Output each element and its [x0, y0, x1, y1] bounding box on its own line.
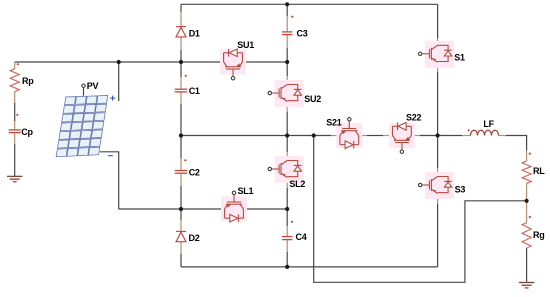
- PV sense terminal: [83, 87, 85, 96]
- wire node B down: [286, 62, 288, 76]
- wire RL top stub: [526, 150, 528, 161]
- wire midpoint to LF: [438, 135, 462, 137]
- junction node row SL / C2-D2: [179, 207, 183, 211]
- wire input row left (Rp top to node A): [15, 61, 181, 63]
- wire C4 to bottom rail: [286, 252, 288, 267]
- resistor RL: [522, 161, 531, 184]
- wire S3 collector stub: [437, 168, 439, 177]
- svg-text:LF: LF: [483, 119, 494, 129]
- wire Cp top stub: [14, 121, 16, 130]
- svg-text:SU1: SU1: [237, 40, 254, 50]
- transistor SU2 (IGBT with antiparallel diode): [268, 80, 304, 107]
- wire S1 emitter stub: [437, 62, 439, 72]
- transistor S3 (IGBT with antiparallel diode): [419, 172, 455, 199]
- ground (right, Rg): [519, 283, 534, 288]
- wire SL2 emitter stub: [286, 178, 288, 189]
- marker dot Cp: [16, 114, 18, 116]
- solar panel PV: [56, 96, 108, 157]
- svg-text:D1: D1: [189, 29, 200, 39]
- wire S22 right stub: [411, 135, 420, 137]
- wire mid row: S21 to S22: [367, 135, 383, 137]
- wire C1 to node C (mid row): [180, 104, 182, 136]
- diode D2: [176, 231, 186, 241]
- svg-text:Rg: Rg: [533, 230, 545, 240]
- wire Rp bottom stub: [14, 92, 16, 103]
- resistor Rg: [522, 223, 531, 248]
- wire SU2 emitter stub: [286, 102, 288, 113]
- PV plus terminal marker: [110, 96, 115, 101]
- marker dot RL: [529, 153, 531, 155]
- wire Rp top stub: [14, 62, 16, 69]
- junction node B (SU1/C3/SU2): [285, 60, 289, 64]
- wire C1 top stub: [180, 77, 182, 89]
- transistor SU1 (IGBT with antiparallel diode): [220, 49, 246, 80]
- wire midpoint to S3: [437, 136, 439, 169]
- junction node mid row / SU2-SL2: [285, 133, 289, 137]
- svg-text:SL1: SL1: [238, 186, 254, 196]
- svg-text:S3: S3: [455, 184, 466, 194]
- junction node mid row / load return: [312, 133, 316, 137]
- wire D2 anode stub: [180, 242, 182, 254]
- wire row SL down to C4: [286, 209, 288, 226]
- junction node A (D1/C1/SU1): [179, 60, 183, 64]
- wire S1 to midpoint: [437, 72, 439, 136]
- wire LF left stub: [462, 135, 471, 137]
- wire Rg top stub: [526, 201, 528, 223]
- svg-text:S1: S1: [454, 52, 465, 62]
- svg-text:C2: C2: [189, 168, 200, 178]
- wire S1 drain rail: [437, 4, 439, 38]
- wire C4 bottom stub: [286, 240, 288, 252]
- wire row SL left (PV neg / node to SL1): [119, 208, 225, 210]
- svg-text:Cp: Cp: [21, 127, 33, 137]
- wire C3 bottom stub: [286, 35, 288, 48]
- wire D1 to node A: [180, 50, 182, 62]
- wire PV negative terminal down to row SL: [100, 152, 119, 209]
- capacitor C3: [282, 32, 292, 35]
- wire S22 left stub: [383, 135, 393, 137]
- wire D1 anode stub: [180, 37, 182, 50]
- junction node RL-Rg output: [525, 199, 529, 203]
- transistor S21 (IGBT with antiparallel diode): [336, 118, 362, 149]
- wire SL1 right to node: [244, 208, 288, 210]
- capacitor C2: [175, 171, 188, 174]
- svg-text:RL: RL: [533, 166, 545, 176]
- svg-text:C3: C3: [297, 28, 308, 38]
- wire SU1 right to node B: [243, 61, 288, 63]
- wire xA rail top to D1: [180, 4, 182, 12]
- transistor SL1 (IGBT with antiparallel diode): [221, 191, 247, 222]
- wire C3 to node B: [286, 48, 288, 62]
- wire RL bottom stub: [526, 183, 528, 200]
- svg-text:S22: S22: [406, 113, 422, 123]
- diode D1: [176, 27, 186, 37]
- svg-text:D2: D2: [189, 233, 200, 243]
- resistor Rp: [10, 69, 19, 92]
- transistor S22 (IGBT with antiparallel diode): [389, 123, 415, 154]
- wire D1 cathode stub: [180, 12, 182, 27]
- wire D2 cathode stub: [180, 220, 182, 231]
- svg-text:C4: C4: [296, 232, 307, 242]
- junction node top rail / C3: [285, 2, 289, 6]
- wire mid row node down: [180, 136, 182, 159]
- wire mid row: node to S21: [181, 135, 331, 137]
- wire row SL node down: [180, 209, 182, 220]
- wire LF right stub: [499, 135, 507, 137]
- wire C3 top stub: [286, 16, 288, 32]
- transistor SL2 (IGBT with antiparallel diode): [268, 156, 304, 183]
- wire SL2 to row SL: [286, 188, 288, 209]
- wire S3 emitter down to bottom rail: [437, 204, 439, 267]
- marker dot C4: [291, 221, 293, 223]
- marker dot LF: [468, 129, 470, 131]
- svg-text:SL2: SL2: [289, 179, 305, 189]
- ground (left, Cp): [7, 176, 22, 181]
- marker dot C2: [184, 159, 186, 161]
- wire D2 to bottom rail: [180, 254, 182, 267]
- wire SU2 to mid row: [286, 112, 288, 136]
- marker dot C1: [185, 75, 187, 77]
- wire top rail (D1 cathode to S1 drain): [181, 3, 438, 5]
- wire node A to SU1 left: [181, 61, 224, 63]
- wire mid row to SL2: [286, 136, 288, 153]
- marker dot Rg: [529, 216, 531, 218]
- wire Cp to ground: [14, 144, 16, 176]
- wire bottom rail: [181, 266, 438, 268]
- wire C2 bottom stub: [180, 174, 182, 187]
- wire Rp to Cp: [14, 103, 16, 121]
- svg-text:SU2: SU2: [304, 94, 321, 104]
- wire node A down: [180, 62, 182, 77]
- wire S21 right stub: [359, 135, 367, 137]
- svg-text:Rp: Rp: [22, 76, 34, 86]
- wire LF to RL top: [506, 136, 527, 151]
- wire PV positive terminal to input row: [118, 62, 120, 101]
- wire C2 to row SL: [180, 186, 182, 209]
- capacitor C4: [282, 237, 292, 240]
- junction node PV+ / input row: [117, 60, 121, 64]
- wire SU2 collector stub: [286, 76, 288, 85]
- junction node row SL / SL2-C4: [285, 207, 289, 211]
- wire S1 collector stub: [437, 38, 439, 45]
- transistor S1 (IGBT with antiparallel diode): [419, 41, 455, 68]
- capacitor C1: [175, 89, 188, 92]
- wire C2 top stub: [180, 158, 182, 170]
- wire Cp bottom stub: [14, 133, 16, 144]
- wire S3 emitter stub: [437, 194, 439, 205]
- junction node mid row / C1-C2: [179, 133, 183, 137]
- wire SL2 collector stub: [286, 152, 288, 161]
- svg-text:S21: S21: [326, 117, 342, 127]
- PV minus terminal marker: [108, 155, 113, 157]
- capacitor Cp: [9, 130, 21, 133]
- svg-text:PV: PV: [87, 81, 99, 91]
- wire load return from mid node to RL/Rg junction: [314, 136, 527, 283]
- wire C4 top stub: [286, 226, 288, 236]
- junction node bottom rail / C4: [285, 265, 289, 269]
- marker dot C3: [291, 16, 293, 18]
- wire Rg bottom to ground: [526, 248, 528, 283]
- wire C1 bottom stub: [180, 92, 182, 104]
- wire xB rail top: [286, 4, 288, 16]
- svg-text:C1: C1: [189, 86, 200, 96]
- marker dot Rp: [17, 63, 19, 65]
- junction node S1-S3 midpoint: [436, 133, 440, 137]
- wire mid row: S22 to S1/S3 midpoint: [420, 135, 438, 137]
- wire S21 left stub: [331, 135, 340, 137]
- inductor LF: [471, 130, 499, 135]
